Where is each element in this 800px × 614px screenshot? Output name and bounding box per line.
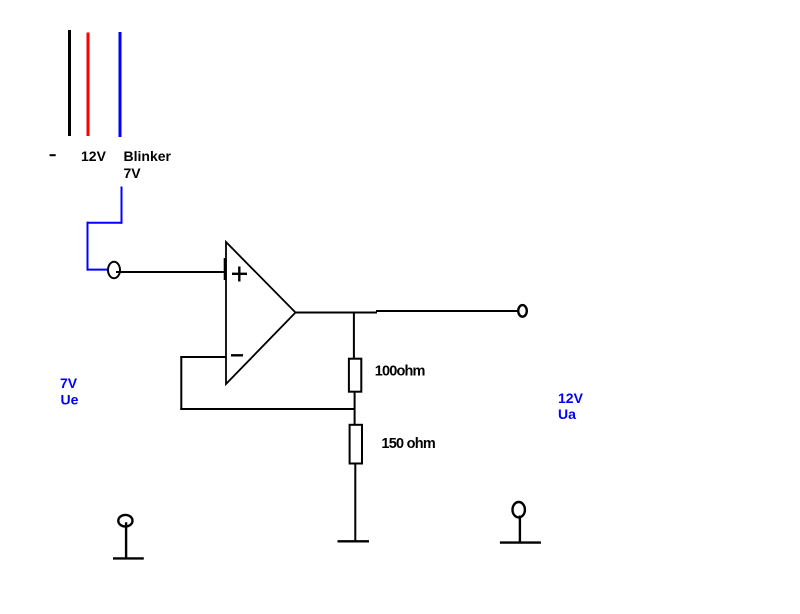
resistor R1 100ohm: [349, 359, 361, 392]
label 7V Ue input voltage: [60, 375, 79, 407]
node input terminal Ue: [108, 262, 120, 278]
svg-text:7V: 7V: [124, 165, 142, 181]
wire output junction down to R1: [353, 312, 355, 359]
op-amp - input marker: [231, 354, 243, 356]
svg-text:Blinker: Blinker: [124, 148, 172, 164]
terminal post right (reference for Ua): [500, 502, 541, 543]
wire feedback vertical: [180, 356, 182, 410]
svg-text:12V: 12V: [558, 390, 584, 406]
label 12V Ua output voltage: [558, 390, 584, 422]
svg-text:100ohm: 100ohm: [375, 364, 425, 380]
resistor R2 150 ohm: [350, 425, 362, 464]
wire blue horizontal jog: [87, 222, 123, 224]
wire input terminal to op-amp + input: [116, 271, 225, 273]
op-amp U1 input pin bar: [224, 258, 227, 280]
wire inverting input: [180, 356, 226, 358]
wire red supply line 12V: [87, 33, 90, 137]
wire R1 to R2 node A: [354, 392, 356, 425]
wire R2 to ground: [354, 464, 356, 542]
svg-text:Ue: Ue: [61, 391, 79, 407]
svg-text:150 ohm: 150 ohm: [381, 436, 435, 452]
ground: [338, 540, 370, 542]
wire blue vertical down to input: [87, 222, 89, 271]
node output terminal Ua: [518, 305, 527, 317]
op-amp U1: [226, 242, 296, 384]
wire output to terminal (stepped): [376, 310, 518, 312]
op-amp + input marker: [232, 267, 247, 282]
svg-text:12V: 12V: [81, 148, 107, 164]
label "-": [50, 154, 56, 156]
wire blue vertical from 7V label: [121, 187, 123, 224]
wire feedback horizontal to node A: [180, 408, 355, 410]
svg-text:Ua: Ua: [558, 406, 576, 422]
wire blue supply line Blinker: [119, 32, 122, 137]
wire op-amp output: [296, 312, 378, 314]
wire blue into input terminal: [87, 269, 108, 271]
wire black supply line "-": [68, 30, 71, 136]
terminal post left (reference for Ue): [113, 515, 144, 559]
svg-text:7V: 7V: [60, 375, 78, 391]
